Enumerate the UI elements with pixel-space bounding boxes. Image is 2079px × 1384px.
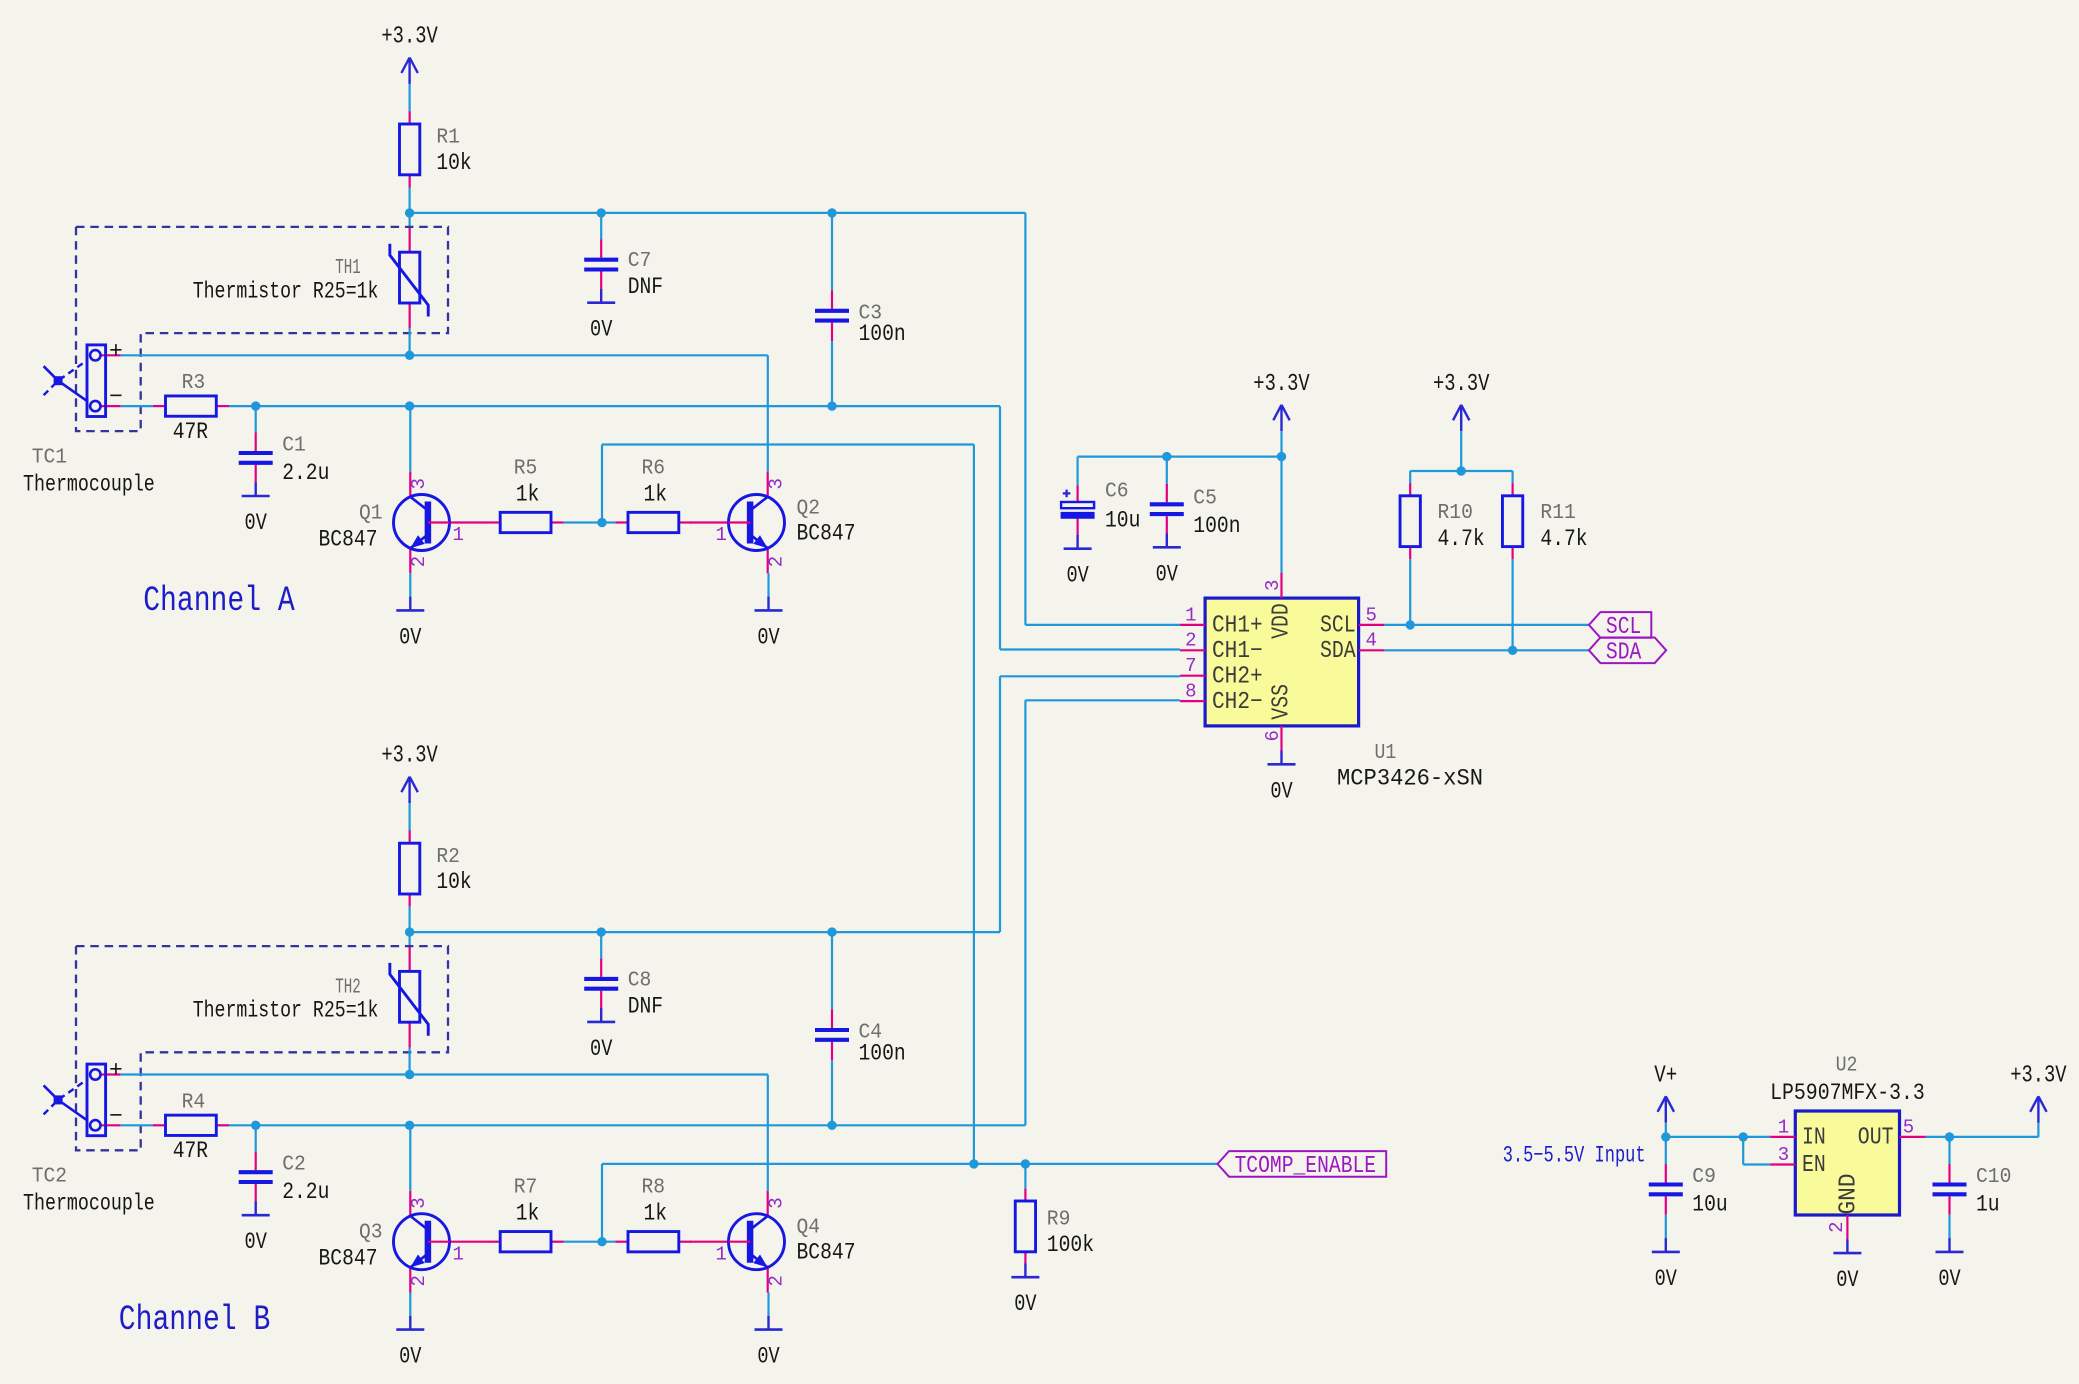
U1 pin 5 SCL (1359, 624, 1385, 626)
wire V+ stem (1665, 1123, 1667, 1137)
svg-text:R8: R8 (642, 1177, 666, 1200)
wire feedback rail (602, 443, 974, 445)
svg-text:3: 3 (765, 1197, 787, 1208)
junction TH2 bottom (405, 1070, 414, 1079)
wire TCOMP_ENABLE rail (602, 1163, 1218, 1165)
junction C1 top (251, 401, 260, 410)
svg-text:Q4: Q4 (797, 1217, 821, 1240)
wire C6 hang (1076, 457, 1078, 486)
capacitor C8 (584, 958, 663, 1019)
svg-text:1: 1 (1778, 1116, 1789, 1138)
junction C2 top (251, 1121, 260, 1130)
svg-text:TH1: TH1 (335, 257, 361, 280)
svg-text:10u: 10u (1105, 508, 1140, 534)
svg-text:2.2u: 2.2u (282, 1179, 329, 1205)
svg-text:TC2: TC2 (32, 1166, 67, 1189)
wire C4 bottom (831, 1060, 833, 1125)
svg-text:TCOMP_ENABLE: TCOMP_ENABLE (1235, 1153, 1377, 1180)
wire R2 to node B rail (409, 907, 411, 932)
svg-text:1: 1 (453, 524, 464, 546)
svg-text:1: 1 (1185, 604, 1196, 626)
svg-text:3: 3 (1262, 580, 1284, 591)
thermocouple TC1 (23, 338, 155, 497)
wire top rail down to CH1+ (1024, 213, 1026, 625)
junction R2/TH2 (405, 927, 414, 936)
wire node-B top rail (410, 931, 1000, 933)
U1 pin 4 SDA (1359, 649, 1385, 651)
U1 pin 1 CH1+ (1180, 624, 1205, 626)
svg-text:Q2: Q2 (797, 498, 821, 521)
U1 pin 8 CH2- (1180, 700, 1205, 702)
svg-text:0V: 0V (399, 1344, 421, 1370)
wire R5-R6 node (564, 521, 616, 523)
wire + row riser to Q4 collector (767, 1075, 769, 1191)
svg-text:2: 2 (1185, 630, 1196, 652)
ground 0V (1652, 1238, 1680, 1292)
wire rail down to TH2 (409, 932, 411, 946)
svg-text:6: 6 (1262, 730, 1284, 741)
svg-text:100n: 100n (859, 321, 906, 347)
svg-text:100n: 100n (1193, 513, 1240, 539)
svg-text:BC847: BC847 (319, 1246, 378, 1272)
svg-text:0V: 0V (590, 1036, 612, 1062)
svg-text:BC847: BC847 (797, 1240, 856, 1266)
wire feedback riser from R5/R6 (601, 445, 603, 523)
junction SDA/R11 (1508, 646, 1517, 655)
svg-text:VSS: VSS (1269, 684, 1296, 720)
svg-text:0V: 0V (399, 624, 421, 650)
svg-text:R2: R2 (436, 846, 460, 869)
svg-text:R10: R10 (1438, 502, 1473, 525)
resistor R1 (400, 111, 472, 187)
wire SCL to label (1384, 624, 1589, 626)
svg-text:R11: R11 (1540, 502, 1575, 525)
capacitor C6 (polarised) (1061, 481, 1141, 537)
IC U2 LP5907 body (1795, 1111, 1899, 1215)
wire Q3 emitter to ground (409, 1293, 411, 1318)
wire R3 output row (229, 405, 1000, 407)
svg-text:1k: 1k (516, 1201, 540, 1227)
junction TH1 bottom (405, 351, 414, 360)
svg-text:0V: 0V (1655, 1266, 1677, 1292)
resistor R4 (153, 1091, 229, 1164)
junction R7/R8 (597, 1237, 606, 1246)
svg-text:1k: 1k (644, 1201, 668, 1227)
wire riser to +3.3V out (2037, 1123, 2039, 1137)
svg-text:5: 5 (1903, 1116, 1914, 1138)
junction SCL/R10 (1406, 620, 1415, 629)
svg-text:+3.3V: +3.3V (381, 743, 438, 770)
svg-text:Channel A: Channel A (143, 581, 295, 621)
transistor Q3 (319, 1191, 489, 1293)
wire R11 top (1511, 471, 1513, 483)
wire C2 hang (255, 1125, 257, 1151)
svg-text:3: 3 (1778, 1144, 1789, 1166)
svg-text:3: 3 (408, 1197, 430, 1208)
svg-text:BC847: BC847 (797, 521, 856, 547)
wire EN branch (1742, 1137, 1744, 1165)
junction C4 bottom (827, 1121, 836, 1130)
svg-text:1: 1 (453, 1243, 464, 1265)
svg-text:0V: 0V (1938, 1266, 1960, 1292)
junction pullup rail (1457, 466, 1466, 475)
capacitor C9 (1649, 1164, 1728, 1217)
power +3.3V (U2 out) (2010, 1062, 2067, 1122)
svg-text:+: + (109, 1058, 123, 1084)
svg-text:100n: 100n (859, 1040, 906, 1066)
svg-text:7: 7 (1185, 655, 1196, 677)
wire C10 hang (1948, 1137, 1950, 1164)
net label SCL (1589, 612, 1651, 641)
svg-text:DNF: DNF (628, 274, 663, 300)
svg-text:2: 2 (765, 1275, 787, 1286)
junction C4 top (827, 927, 836, 936)
junction C9 top (1661, 1132, 1670, 1141)
svg-text:R9: R9 (1047, 1209, 1071, 1232)
svg-text:VDD: VDD (1269, 603, 1296, 639)
svg-text:TC1: TC1 (32, 446, 67, 469)
svg-text:100k: 100k (1047, 1232, 1094, 1258)
wire pullup rail (1410, 470, 1512, 472)
wire Q4 emitter to ground (767, 1293, 769, 1318)
svg-text:Thermocouple: Thermocouple (23, 1191, 155, 1217)
svg-text:C8: C8 (628, 969, 652, 992)
U1 pin 6 VSS (1280, 726, 1282, 751)
wire OUT to +3.3V (1926, 1136, 2039, 1138)
svg-text:V+: V+ (1654, 1062, 1677, 1089)
wire TC1- to R3 (121, 405, 153, 407)
svg-text:MCP3426-xSN: MCP3426-xSN (1337, 766, 1483, 792)
wire rail up to CH2+ (999, 676, 1001, 932)
svg-text:3: 3 (765, 478, 787, 489)
ground 0V (396, 597, 424, 651)
power +3.3V (channel B) (381, 743, 438, 803)
svg-text:2: 2 (765, 556, 787, 567)
wire C10 to ground (1948, 1215, 1950, 1240)
svg-text:BC847: BC847 (319, 527, 378, 553)
junction R5/R6 (597, 518, 606, 527)
ground 0V (755, 597, 783, 651)
wire + row riser to Q2 collector (767, 355, 769, 471)
svg-text:R5: R5 (514, 457, 538, 480)
junction EN branch (1739, 1132, 1748, 1141)
svg-text:0V: 0V (1270, 778, 1292, 804)
wire C1 hang (255, 406, 257, 432)
wire R7/R8 riser to TCOMP rail (601, 1164, 603, 1242)
transistor Q4 (690, 1191, 856, 1293)
U1 pin 2 CH1- (1180, 649, 1205, 651)
wire R11 bottom to SDA (1511, 559, 1513, 650)
svg-text:LP5907MFX-3.3: LP5907MFX-3.3 (1770, 1080, 1925, 1106)
ground 0V (755, 1316, 783, 1370)
svg-text:CH1−: CH1− (1212, 638, 1263, 665)
svg-text:Q1: Q1 (359, 503, 383, 526)
wire Q2 emitter to ground (767, 573, 769, 598)
resistor R8 (615, 1177, 691, 1252)
svg-text:CH2−: CH2− (1212, 689, 1263, 716)
wire +3.3V to R1 (409, 84, 411, 112)
svg-text:10u: 10u (1692, 1191, 1727, 1217)
svg-text:R4: R4 (182, 1091, 206, 1114)
svg-text:Thermistor R25=1k: Thermistor R25=1k (193, 279, 379, 305)
junction Q3 collector (405, 1121, 414, 1130)
junction R9 top (1021, 1159, 1030, 1168)
svg-text:0V: 0V (245, 1229, 267, 1255)
ground 0V (242, 1202, 270, 1256)
wire C8 hang (600, 932, 602, 958)
wire C9 to ground (1665, 1215, 1667, 1240)
svg-text:Q3: Q3 (359, 1222, 383, 1245)
svg-text:C5: C5 (1193, 487, 1217, 510)
junction C3 top (827, 208, 836, 217)
wire C6/C5/VDD rail (1078, 456, 1282, 458)
svg-text:C1: C1 (282, 434, 306, 457)
svg-text:10k: 10k (436, 150, 471, 176)
resistor R11 (1502, 483, 1587, 559)
wire VDD riser (1280, 457, 1282, 573)
wire node-A top rail (410, 212, 1026, 214)
ground 0V (1268, 751, 1296, 805)
svg-text:+3.3V: +3.3V (1253, 371, 1310, 398)
resistor R7 (488, 1177, 564, 1252)
net label TCOMP_ENABLE (1218, 1151, 1387, 1180)
wire +3.3V pullup stem (1460, 431, 1462, 471)
svg-text:EN: EN (1802, 1152, 1826, 1179)
svg-text:+3.3V: +3.3V (2010, 1062, 2067, 1089)
wire V+ to IN (1666, 1136, 1770, 1138)
svg-text:Thermocouple: Thermocouple (23, 471, 155, 497)
transistor Q1 (319, 472, 489, 574)
svg-text:0V: 0V (245, 510, 267, 536)
resistor R2 (400, 831, 472, 907)
svg-text:+3.3V: +3.3V (1433, 371, 1490, 398)
svg-text:DNF: DNF (628, 993, 663, 1019)
thermistor TH2 (390, 946, 428, 1048)
svg-text:C6: C6 (1105, 481, 1129, 504)
svg-text:2.2u: 2.2u (282, 460, 329, 486)
svg-text:3: 3 (408, 478, 430, 489)
wire C5 hang (1166, 457, 1168, 484)
svg-text:SDA: SDA (1320, 638, 1356, 665)
svg-text:R7: R7 (514, 1177, 538, 1200)
svg-text:4.7k: 4.7k (1438, 526, 1485, 552)
wire R10 top (1409, 471, 1411, 483)
svg-text:1: 1 (716, 524, 727, 546)
svg-text:0V: 0V (1066, 563, 1088, 589)
resistor R6 (615, 457, 691, 532)
junction R1/TH1 (405, 208, 414, 217)
thermistor TH1 (390, 227, 428, 329)
resistor R5 (488, 457, 564, 532)
svg-text:GND: GND (1836, 1174, 1863, 1215)
svg-text:OUT: OUT (1858, 1125, 1894, 1152)
ground 0V (1936, 1238, 1964, 1292)
ground 0V (1011, 1264, 1039, 1318)
svg-text:47R: 47R (173, 419, 209, 445)
junction C3 bottom (827, 401, 836, 410)
wire R9 hang (1024, 1164, 1026, 1188)
U1 pin 7 CH2+ (1180, 675, 1205, 677)
dashed enclosure TH1/TC1 (76, 227, 448, 431)
capacitor C7 (584, 239, 663, 300)
wire SDA to label (1384, 649, 1589, 651)
capacitor C4 (815, 1010, 906, 1067)
svg-text:SDA: SDA (1606, 639, 1642, 666)
wire C9 hang (1665, 1137, 1667, 1164)
power V+ (1654, 1062, 1677, 1122)
wire - row down to CH1- (999, 406, 1001, 649)
svg-text:1u: 1u (1976, 1191, 2000, 1217)
wire feedback down to TCOMP rail (973, 445, 975, 1164)
wire C3 bottom (831, 341, 833, 406)
capacitor C5 (1150, 484, 1241, 539)
ground 0V (242, 482, 270, 536)
svg-text:SCL: SCL (1320, 613, 1356, 640)
svg-text:C7: C7 (628, 250, 652, 273)
capacitor C10 (1933, 1164, 2012, 1217)
svg-text:C2: C2 (282, 1154, 306, 1177)
svg-text:10k: 10k (436, 869, 471, 895)
wire R10 bottom to SCL (1409, 559, 1411, 625)
power +3.3V (pullups) (1433, 371, 1490, 431)
svg-text:0V: 0V (757, 624, 779, 650)
thermocouple TC2 (23, 1058, 155, 1217)
svg-text:R6: R6 (642, 457, 666, 480)
resistor R10 (1400, 483, 1485, 559)
wire +3.3V to VDD riser (1280, 431, 1282, 456)
capacitor C1 (239, 433, 330, 486)
svg-text:2: 2 (1826, 1221, 1848, 1232)
U2 pin 2 GND (1846, 1215, 1848, 1240)
svg-text:U1: U1 (1375, 742, 1397, 765)
junction C10 top (1945, 1132, 1954, 1141)
svg-text:0V: 0V (1836, 1267, 1858, 1293)
resistor R3 (153, 372, 229, 445)
wire Q1 collector riser (409, 406, 411, 472)
ground 0V (396, 1316, 424, 1370)
wire +3.3V to R2 (409, 803, 411, 831)
svg-text:2: 2 (408, 1275, 430, 1286)
svg-text:0V: 0V (1014, 1291, 1036, 1317)
svg-text:1: 1 (716, 1243, 727, 1265)
resistor R9 (1015, 1188, 1094, 1264)
svg-text:2: 2 (408, 556, 430, 567)
wire C4 top (831, 932, 833, 1009)
junction C7 top (597, 208, 606, 217)
svg-text:47R: 47R (173, 1138, 209, 1164)
svg-text:C9: C9 (1692, 1166, 1716, 1189)
U2 pin 5 OUT (1900, 1136, 1926, 1138)
wire R4 output row (229, 1124, 1025, 1126)
dashed enclosure TH2/TC2 (76, 946, 448, 1150)
svg-text:IN: IN (1802, 1125, 1826, 1152)
ground 0V (1064, 535, 1092, 589)
transistor Q2 (690, 472, 856, 574)
svg-text:0V: 0V (757, 1344, 779, 1370)
junction VDD riser (1277, 452, 1286, 461)
svg-text:CH2+: CH2+ (1212, 663, 1263, 690)
svg-text:Thermistor R25=1k: Thermistor R25=1k (193, 998, 379, 1024)
wire TC2- to R4 (121, 1124, 153, 1126)
U1 pin 3 VDD (1280, 573, 1282, 598)
wire TC1+ row (121, 354, 768, 356)
svg-text:4: 4 (1365, 630, 1376, 652)
wire TH2 to + row (409, 1048, 411, 1075)
svg-text:CH1+: CH1+ (1212, 613, 1263, 640)
svg-text:0V: 0V (590, 317, 612, 343)
svg-text:5: 5 (1365, 604, 1376, 626)
svg-text:3.5−5.5V Input: 3.5−5.5V Input (1503, 1142, 1646, 1168)
junction C8 top (597, 927, 606, 936)
ground 0V (1153, 534, 1181, 588)
ground 0V (587, 1008, 615, 1062)
svg-text:C10: C10 (1976, 1166, 2011, 1189)
U2 pin 1 IN (1770, 1136, 1795, 1138)
wire C3 top (831, 213, 833, 290)
wire C7 hang (600, 213, 602, 239)
wire TH1 to + row (409, 328, 411, 355)
power +3.3V (channel A) (381, 24, 438, 84)
wire R1 to node A rail (409, 188, 411, 213)
svg-text:U2: U2 (1836, 1055, 1858, 1078)
junction Q1 collector (405, 401, 414, 410)
svg-text:1k: 1k (644, 481, 668, 507)
wire rail down to TH1 (409, 213, 411, 227)
svg-text:8: 8 (1185, 681, 1196, 703)
junction C5 top (1162, 452, 1171, 461)
svg-text:Channel B: Channel B (119, 1300, 270, 1340)
power +3.3V (U1 VDD) (1253, 371, 1310, 431)
svg-text:TH2: TH2 (335, 976, 361, 999)
capacitor C2 (239, 1152, 330, 1205)
wire Q1 emitter to ground (409, 573, 411, 598)
svg-text:0V: 0V (1156, 561, 1178, 587)
svg-text:+: + (109, 338, 123, 364)
ground 0V (1833, 1239, 1861, 1293)
wire R7-R8 node (564, 1241, 616, 1243)
IC U1 MCP3426 body (1205, 598, 1359, 726)
capacitor C3 (815, 290, 906, 347)
wire - row up to CH2- (1024, 700, 1026, 1125)
wire TC2+ row (121, 1073, 768, 1075)
svg-text:1k: 1k (516, 481, 540, 507)
svg-text:R3: R3 (182, 372, 206, 395)
junction feedback/TCOMP (969, 1159, 978, 1168)
U2 pin 3 EN (1770, 1163, 1795, 1165)
wire Q3 collector riser (409, 1125, 411, 1191)
svg-text:+3.3V: +3.3V (381, 24, 438, 51)
ground 0V (587, 289, 615, 343)
svg-text:4.7k: 4.7k (1540, 526, 1587, 552)
net label SDA (1589, 638, 1666, 667)
svg-text:R1: R1 (436, 127, 460, 150)
